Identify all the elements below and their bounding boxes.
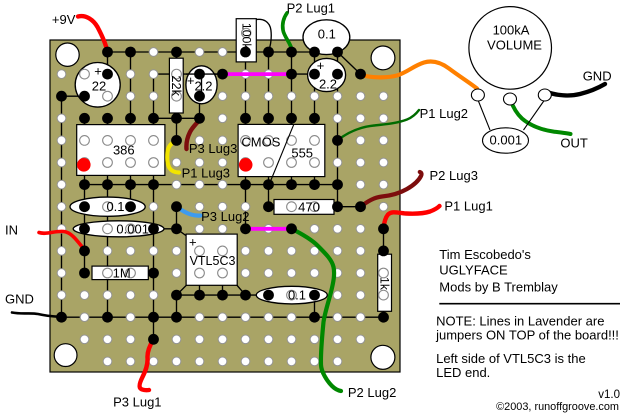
- svg-text:©2003, runoffgroove.com: ©2003, runoffgroove.com: [496, 401, 619, 413]
- wire row7 bus: [85, 184, 338, 186]
- capacitor 2.2uF C4: [308, 58, 346, 92]
- wire row2 trace: [154, 73, 223, 75]
- svg-text:22: 22: [92, 79, 106, 94]
- resistor 1M R3: [92, 265, 148, 280]
- wire diagonal to VTL5C3 top: [177, 229, 189, 237]
- wire P1 Lug3 (yellow): [167, 140, 179, 172]
- wire col4 trace: [130, 52, 132, 207]
- svg-text:+: +: [94, 64, 102, 79]
- capacitor 0.1uF C7: [256, 286, 327, 304]
- potentiometer 100kA VOLUME: [469, 7, 552, 90]
- wire col3 trace: [107, 52, 109, 317]
- wire diagonal VTL5C3 bottom-left: [177, 285, 187, 295]
- svg-text:Mods by B Tremblay: Mods by B Tremblay: [439, 280, 558, 295]
- wire diagonal VTL5C3 bottom-right: [237, 285, 246, 295]
- wire row3 trace: [62, 95, 85, 97]
- perfboard: [50, 40, 400, 372]
- optocoupler VTL5C3 U3: [186, 234, 237, 285]
- svg-text:0.1: 0.1: [288, 288, 306, 303]
- wire col7 trace: [199, 96, 201, 118]
- svg-text:100kA: 100kA: [493, 22, 530, 37]
- wire OUT (green): [511, 100, 571, 134]
- svg-text:IN: IN: [5, 223, 18, 238]
- svg-text:GND: GND: [5, 292, 34, 307]
- svg-text:0.1: 0.1: [318, 26, 336, 41]
- svg-text:P1 Lug2: P1 Lug2: [420, 106, 468, 121]
- wire to volume pot (orange): [361, 61, 478, 88]
- pot lug 2: [504, 93, 517, 105]
- wire 100k top lead: [254, 19, 271, 51]
- svg-text:555: 555: [291, 146, 313, 161]
- svg-text:P3 Lug2: P3 Lug2: [201, 209, 249, 224]
- svg-text:Tim Escobedo's: Tim Escobedo's: [439, 247, 531, 262]
- mounting hole bottom-right: [371, 345, 395, 369]
- svg-text:UGLYFACE: UGLYFACE: [439, 262, 508, 277]
- svg-text:2.2: 2.2: [319, 77, 337, 92]
- wire col1 trace: [61, 96, 63, 317]
- wire P1 Lug1 (red): [384, 206, 440, 229]
- svg-text:v1.0: v1.0: [598, 389, 620, 401]
- wire P3 Lug2 (blue): [177, 207, 201, 216]
- capacitor 0.001uF C8 on pot: [483, 128, 529, 153]
- wire col5 trace: [153, 74, 155, 339]
- capacitor 0.1uF C5: [70, 197, 145, 216]
- svg-text:+9V: +9V: [52, 12, 76, 27]
- wire row1 supply bus: [108, 51, 338, 53]
- mounting hole top-left: [56, 43, 79, 66]
- svg-text:LED end.: LED end.: [436, 365, 490, 380]
- resistor 470 R4: [274, 200, 334, 215]
- wire +9V (red): [78, 16, 107, 51]
- wire row2 trace b: [292, 73, 315, 75]
- wire P1 Lug2 (dark green): [338, 110, 420, 140]
- wire col6 trace: [176, 52, 178, 317]
- wire P2 Lug3 (maroon): [361, 172, 422, 207]
- svg-text:386: 386: [113, 143, 135, 158]
- wire row12 trace: [177, 294, 269, 296]
- svg-text:2.2: 2.2: [194, 79, 212, 94]
- wire col15 trace: [383, 229, 385, 317]
- mounting hole top-right: [371, 46, 395, 70]
- jumper (lavender, on top of board) row2: [223, 72, 292, 76]
- op-amp IC 386 U1: [77, 125, 165, 176]
- svg-text:P3 Lug1: P3 Lug1: [113, 394, 161, 409]
- svg-text:VOLUME: VOLUME: [487, 37, 542, 52]
- svg-text:100k: 100k: [239, 23, 253, 51]
- svg-text:P2 Lug2: P2 Lug2: [348, 385, 396, 400]
- wire P2 Lug1 (green): [283, 13, 292, 51]
- jumper (lavender, on top of board) row9: [246, 227, 292, 231]
- pin 1 marker: [239, 158, 253, 172]
- capacitor 2.2uF C2: [186, 66, 217, 104]
- capacitor 22uF C1: [75, 63, 120, 108]
- wire 555 pin stubs: [246, 118, 315, 184]
- wire GND left (black): [12, 313, 62, 318]
- wire IN (red): [39, 231, 86, 251]
- wire: [186, 74, 223, 96]
- wire P2 Lug2 (green): [292, 229, 342, 391]
- svg-text:GND: GND: [583, 68, 612, 83]
- resistor 1k R5: [377, 254, 391, 311]
- divider rule: [439, 303, 620, 305]
- svg-text:1M: 1M: [113, 265, 131, 280]
- wire col12 trace: [314, 52, 316, 317]
- svg-text:P2 Lug3: P2 Lug3: [430, 168, 478, 183]
- IC CMOS 555 U2: [238, 124, 325, 180]
- wire row9 trace: [154, 228, 177, 230]
- wire diagonal row1-row2: [338, 52, 361, 74]
- wire GND right (black): [548, 84, 605, 95]
- wire col13 trace: [337, 52, 339, 207]
- wire row8 trace: [269, 206, 361, 208]
- wire 386 pin stubs: [85, 118, 154, 184]
- svg-text:+: +: [187, 73, 195, 88]
- svg-text:P3 Lug3: P3 Lug3: [189, 141, 237, 156]
- wire col10 trace: [268, 52, 270, 207]
- svg-text:VTL5C3: VTL5C3: [190, 254, 236, 268]
- wire row13 ground bus: [62, 316, 384, 318]
- board holes: [57, 70, 66, 79]
- wire col11 trace: [291, 52, 293, 118]
- svg-text:0.1: 0.1: [106, 199, 124, 214]
- svg-text:jumpers ON TOP of the board!!!: jumpers ON TOP of the board!!!: [435, 327, 619, 342]
- svg-text:470: 470: [298, 200, 320, 215]
- wire row4 trace: [154, 117, 200, 119]
- svg-text:CMOS: CMOS: [241, 134, 280, 149]
- pot lug wires to 0.001 cap: [478, 100, 545, 130]
- resistor 100k R1: [236, 19, 256, 62]
- capacitor 0.001uF C6: [73, 221, 164, 237]
- svg-text:OUT: OUT: [560, 135, 588, 150]
- svg-text:+: +: [189, 235, 197, 250]
- solder junction dots: [56, 91, 67, 102]
- svg-text:P2 Lug1: P2 Lug1: [287, 0, 335, 15]
- svg-text:22k: 22k: [169, 75, 184, 96]
- pot lug 1: [471, 89, 484, 101]
- pin 1 marker: [77, 158, 91, 172]
- wire col9 trace: [245, 52, 247, 229]
- svg-text:P1 Lug3: P1 Lug3: [182, 165, 230, 180]
- svg-text:P1 Lug1: P1 Lug1: [444, 198, 492, 213]
- capacitor 0.1uF C3: [303, 20, 350, 55]
- resistor 22k R2: [169, 58, 184, 113]
- wire P3 Lug3 (maroon): [186, 119, 201, 150]
- pot lug 3: [538, 89, 551, 101]
- svg-text:1k: 1k: [377, 277, 391, 291]
- wire VTL5C3 pin stubs: [200, 285, 223, 295]
- wire P3 Lug1 (red): [140, 339, 154, 390]
- svg-text:0.001: 0.001: [490, 132, 523, 147]
- wire col2 trace: [84, 185, 86, 273]
- mounting hole bottom-left: [54, 344, 77, 367]
- svg-text:0.001: 0.001: [116, 221, 149, 236]
